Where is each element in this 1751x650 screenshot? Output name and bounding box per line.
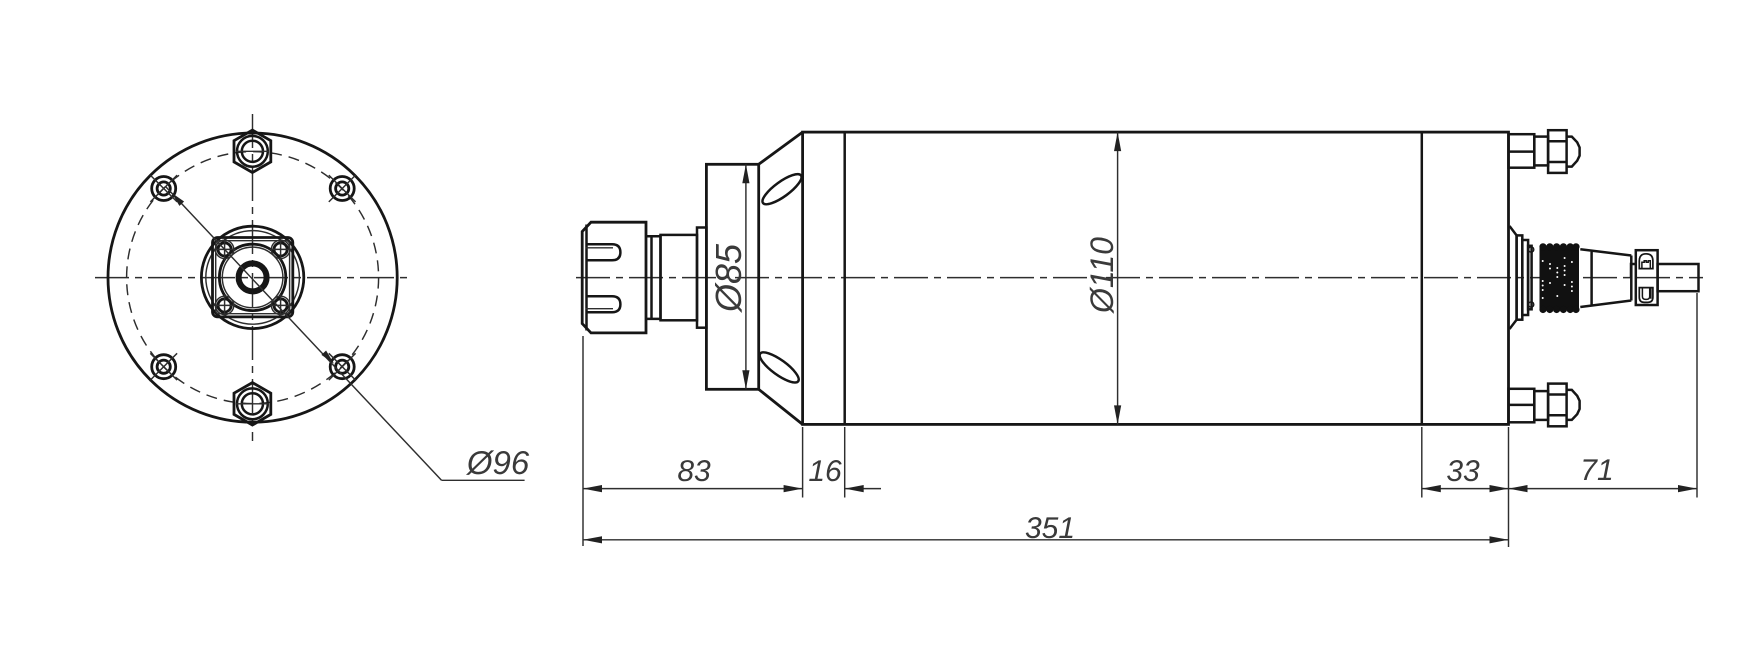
svg-text:351: 351 bbox=[1025, 512, 1075, 545]
svg-text:Ø96: Ø96 bbox=[466, 444, 530, 481]
svg-text:Ø85: Ø85 bbox=[708, 243, 749, 313]
svg-text:33: 33 bbox=[1446, 455, 1480, 488]
svg-text:83: 83 bbox=[677, 455, 711, 488]
svg-text:Ø110: Ø110 bbox=[1084, 237, 1120, 314]
svg-text:16: 16 bbox=[808, 455, 842, 488]
svg-text:71: 71 bbox=[1580, 454, 1613, 487]
